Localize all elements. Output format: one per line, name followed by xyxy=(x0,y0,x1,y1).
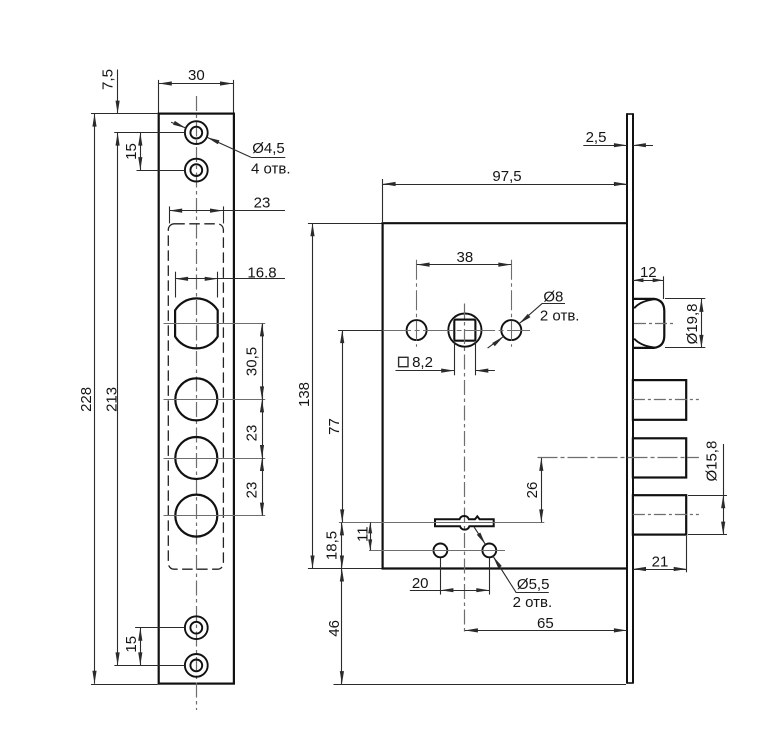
svg-text:Ø8: Ø8 xyxy=(543,288,563,305)
deadbolt2 centerline xyxy=(538,457,699,459)
leader Ø5,5 arrows xyxy=(477,533,486,545)
svg-text:8,2: 8,2 xyxy=(412,354,433,371)
svg-text:7,5: 7,5 xyxy=(100,69,117,90)
dim 15 top line xyxy=(140,133,142,171)
ext line plate top-left xyxy=(91,113,158,115)
screw hole Ø4,5 #3 xyxy=(185,616,208,639)
dim 38 line xyxy=(417,264,512,266)
dim Ø19,8 ext lines xyxy=(665,298,705,300)
bolt hole circle #3 xyxy=(175,437,217,479)
hole horizontal centerline xyxy=(164,323,266,325)
svg-text:228: 228 xyxy=(78,387,95,412)
deadbolt #3 xyxy=(633,495,686,534)
hole horizontal centerline xyxy=(164,458,266,460)
dim 138 line xyxy=(312,223,314,568)
dim 8,2 arrows xyxy=(441,369,454,373)
deadbolt3 centerline xyxy=(633,514,699,516)
dim 97,5 line xyxy=(383,184,627,186)
svg-text:30: 30 xyxy=(188,67,205,84)
dim 30,5 arrows xyxy=(260,323,264,336)
cylinder hole (16.8 flats) xyxy=(175,298,218,348)
dim 77 ext line xyxy=(338,330,383,332)
dim 97,5 arrows xyxy=(383,182,396,186)
hole Ø8 left xyxy=(407,320,427,340)
faceplate front view outline xyxy=(159,114,234,684)
dim 2,5 lines xyxy=(583,145,627,147)
latch bolt outline xyxy=(633,299,664,348)
dim 15 bottom line xyxy=(140,628,142,666)
dim 46 arrows xyxy=(340,569,344,582)
dim 18,5 arrows xyxy=(340,522,344,535)
svg-text:38: 38 xyxy=(457,249,474,266)
svg-text:30,5: 30,5 xyxy=(243,347,260,376)
dim 11 arrows xyxy=(368,522,372,533)
dim 16.8 line xyxy=(175,278,285,280)
bolt hole circle #4 xyxy=(175,495,217,537)
dim 18,5 line xyxy=(341,522,343,568)
dim 97,5 ext line xyxy=(382,179,384,222)
spindle square 8,2 xyxy=(454,320,475,341)
svg-text:2,5: 2,5 xyxy=(586,129,607,146)
dim 26 arrows xyxy=(539,458,543,471)
ext line bottom 46 xyxy=(334,684,627,686)
svg-text:Ø15,8: Ø15,8 xyxy=(704,441,721,482)
ext line hole4 left xyxy=(114,665,184,667)
leader Ø8 line xyxy=(488,336,504,348)
svg-text:23: 23 xyxy=(254,194,271,211)
dim 15 bottom arrows xyxy=(138,628,142,641)
dim 7,5 line above xyxy=(117,70,119,114)
svg-text:213: 213 xyxy=(103,387,120,412)
hole horizontal centerline xyxy=(164,515,266,517)
ext line hole1 left xyxy=(114,132,185,134)
dim 16.8 ext lines xyxy=(175,272,177,298)
Ø5,5 holes axis line xyxy=(369,550,505,552)
dim 23 cutout line xyxy=(169,210,285,212)
dim 65 arrows xyxy=(465,628,478,632)
Ø5,5 holes ext verticals xyxy=(440,558,442,595)
latch bevel curves xyxy=(634,299,656,308)
svg-text:97,5: 97,5 xyxy=(492,168,521,185)
dim 228 arrows xyxy=(92,114,96,127)
leader Ø8 arrows xyxy=(492,336,503,346)
leader Ø4,5 line xyxy=(171,122,186,128)
deadbolt #1 xyxy=(633,380,686,420)
leader Ø5,5 line xyxy=(474,527,486,545)
dim 15 top arrows xyxy=(138,133,142,146)
ext line hole2 left xyxy=(137,170,185,172)
follower bar axis line xyxy=(339,522,544,524)
follower bar xyxy=(435,516,494,530)
svg-text:4 отв.: 4 отв. xyxy=(251,160,291,177)
bolt hole circle #2 xyxy=(175,378,217,420)
dim 26 line xyxy=(541,458,543,523)
svg-text:11: 11 xyxy=(354,526,371,542)
central vertical centerline xyxy=(464,304,466,635)
hole Ø5,5 left xyxy=(434,544,448,558)
dim 213 line xyxy=(117,133,119,666)
deadbolt #2 xyxy=(633,438,686,477)
dim 11 line xyxy=(370,522,372,550)
dim 23 cutout arrows xyxy=(169,209,182,213)
screw hole Ø4,5 #1 xyxy=(185,121,208,144)
faceplate edge view xyxy=(626,113,628,683)
svg-text:Ø19,8: Ø19,8 xyxy=(684,303,701,344)
dim 77 arrows xyxy=(340,330,344,343)
ext line plate bottom-left xyxy=(91,684,158,686)
svg-text:2 отв.: 2 отв. xyxy=(513,594,553,611)
holes horizontal centerline xyxy=(339,330,530,332)
svg-text:23: 23 xyxy=(243,482,260,499)
faceplate vertical centerline xyxy=(196,96,198,710)
dim Ø19,8 line xyxy=(701,299,703,348)
leader Ø4,5 arrows xyxy=(173,121,186,128)
dim 12 line xyxy=(633,280,663,282)
dim 30 line xyxy=(159,83,233,85)
svg-text:12: 12 xyxy=(640,264,657,281)
svg-text:46: 46 xyxy=(326,620,343,637)
dim 30,5 line xyxy=(262,323,264,399)
dim 2,5 arrows xyxy=(614,143,627,147)
hole Ø5,5 right xyxy=(482,544,496,558)
dim 23a line xyxy=(262,399,264,458)
dim 138 ext lines xyxy=(308,223,382,225)
svg-text:26: 26 xyxy=(524,482,541,499)
dim 23b line xyxy=(262,458,264,516)
lock body outline xyxy=(383,223,627,568)
dim 23a arrows xyxy=(260,399,264,412)
dim 23 cutout ext lines xyxy=(169,206,171,223)
dim Ø19,8 arrows xyxy=(699,299,703,312)
svg-text:18,5: 18,5 xyxy=(323,531,340,560)
spindle circle xyxy=(448,314,481,347)
dim 213 arrows xyxy=(116,133,120,146)
dim 77 line xyxy=(342,330,344,522)
hole horizontal centerline xyxy=(164,399,266,401)
svg-text:138: 138 xyxy=(296,382,313,407)
dim Ø15,8 line xyxy=(723,444,725,535)
svg-text:15: 15 xyxy=(123,143,140,160)
dim 21 line xyxy=(633,569,687,571)
svg-text:2 отв.: 2 отв. xyxy=(540,308,580,325)
screw hole Ø4,5 #2 xyxy=(185,159,208,182)
dim 8,2 ext lines xyxy=(454,342,456,376)
dim Ø15,8 arrows xyxy=(721,495,725,508)
dim 30 arrows xyxy=(159,81,172,85)
dim 12 ext line xyxy=(663,276,665,299)
dim 16.8 arrows xyxy=(175,277,188,281)
svg-text:16.8: 16.8 xyxy=(247,265,276,282)
svg-text:Ø4,5: Ø4,5 xyxy=(252,140,285,157)
dim 21 ext line xyxy=(686,536,688,572)
dim 65 line xyxy=(465,630,627,632)
dim 23b arrows xyxy=(260,458,264,471)
ext line hole3 left xyxy=(135,627,185,629)
latch centerline xyxy=(634,323,675,325)
svg-text:21: 21 xyxy=(652,553,669,570)
dim 21 arrows xyxy=(633,567,646,571)
dim Ø15,8 ext lines xyxy=(688,495,727,497)
svg-text:23: 23 xyxy=(243,425,260,442)
svg-text:65: 65 xyxy=(537,615,554,632)
screw hole Ø4,5 #4 xyxy=(185,654,208,677)
dim 138 arrows xyxy=(310,223,314,236)
dim 20 line xyxy=(410,590,490,592)
dim 20 arrows xyxy=(440,588,453,592)
svg-text:77: 77 xyxy=(326,418,343,435)
dim 38 arrows xyxy=(417,263,430,267)
dim 30 extension lines xyxy=(158,80,160,113)
hole Ø8 right xyxy=(501,320,521,340)
deadbolt1 centerline xyxy=(633,399,699,401)
dim 228 line xyxy=(94,114,96,684)
square symbol 8,2 xyxy=(399,357,408,366)
dim 7,5 arrow xyxy=(116,101,120,114)
hole right vertical centerline xyxy=(511,260,513,347)
dim 46 line xyxy=(341,569,343,685)
dim 12 arrows xyxy=(633,278,644,282)
cutout dashed rectangle (23 wide) xyxy=(168,224,223,569)
svg-text:Ø5,5: Ø5,5 xyxy=(517,576,550,593)
svg-text:20: 20 xyxy=(412,575,429,592)
hole left vertical centerline xyxy=(416,260,418,347)
dim 8,2 lines xyxy=(396,370,455,372)
svg-text:15: 15 xyxy=(123,636,140,653)
